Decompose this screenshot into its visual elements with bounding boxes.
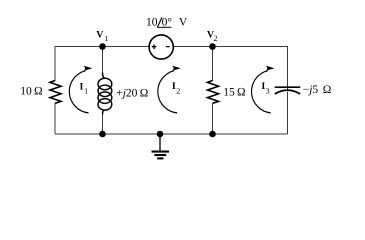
wire left branch lower: [54, 103, 56, 134]
svg-text:10 Ω: 10 Ω: [20, 86, 42, 98]
svg-text:1: 1: [84, 87, 88, 96]
wire right branch lower: [287, 92, 289, 135]
capacitor -j5 ohm: [275, 87, 301, 94]
node ground dot: [157, 131, 164, 138]
source minus sign: [166, 46, 170, 48]
mesh current arrow I1: [69, 66, 91, 113]
svg-text:V: V: [96, 29, 104, 40]
wire V2 branch upper: [212, 47, 214, 82]
svg-text:2: 2: [214, 34, 218, 43]
resistor 15 ohm: [208, 81, 219, 104]
inductor +j20 ohm: [98, 73, 112, 115]
svg-text:I: I: [80, 81, 84, 92]
wire right branch upper: [287, 46, 289, 90]
svg-text:10: 10: [146, 17, 158, 29]
wire V1 branch lower: [102, 115, 104, 134]
node V1 dot: [99, 43, 106, 50]
svg-text:3: 3: [266, 86, 270, 95]
svg-text:2: 2: [176, 86, 180, 95]
wire top-left segment: [55, 46, 149, 48]
mesh current arrow I2: [158, 66, 180, 113]
resistor 10 ohm: [50, 81, 61, 104]
wire V1 branch upper: [102, 47, 104, 74]
svg-text:V: V: [179, 17, 188, 29]
node bottom-left dot: [99, 131, 106, 138]
voltage source circle: [149, 35, 173, 59]
wire left branch upper: [54, 46, 56, 81]
source plus sign: [152, 44, 157, 49]
node bottom-right dot: [209, 131, 216, 138]
label source value 10/0 deg V: [146, 17, 188, 29]
wire V2 branch lower: [212, 103, 214, 134]
svg-text:+j20 Ω: +j20 Ω: [116, 87, 148, 99]
ground: [152, 134, 170, 158]
svg-text:1: 1: [104, 34, 108, 43]
wire bottom: [55, 133, 288, 135]
mesh current arrow I3: [252, 66, 274, 113]
node V2 dot: [209, 43, 216, 50]
svg-text:15 Ω: 15 Ω: [223, 87, 245, 99]
wire top-right segment: [174, 46, 288, 48]
svg-text:−j5 Ω: −j5 Ω: [303, 84, 332, 96]
